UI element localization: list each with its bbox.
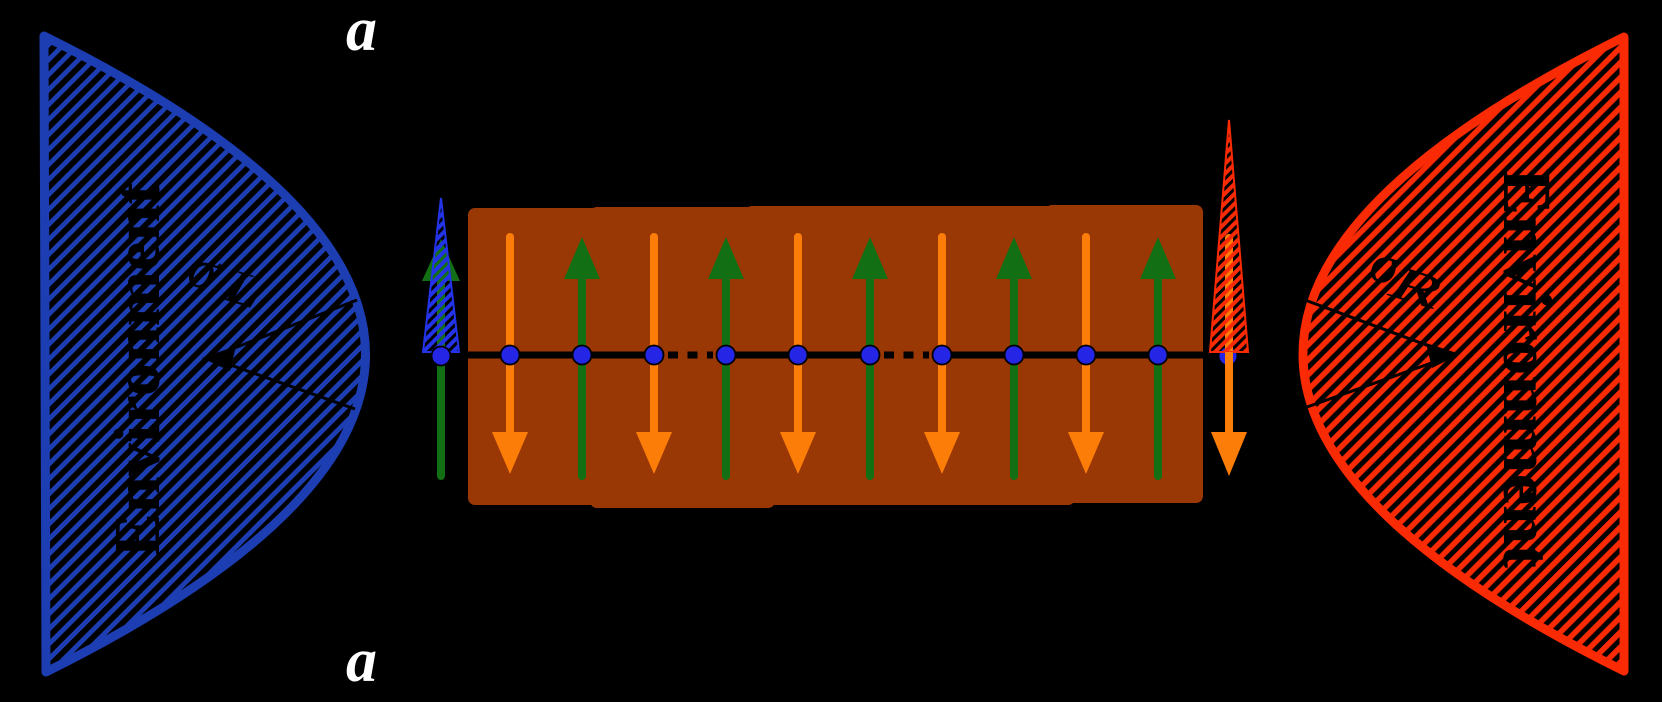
svg-text:a: a [346, 627, 377, 695]
chain line dashed segment 2 [884, 352, 929, 359]
orange down arrow site4 [636, 237, 672, 474]
left injection spike (blue hatched) [423, 198, 459, 352]
orange down arrow site6 [780, 237, 816, 474]
chain site dots [501, 346, 1168, 365]
sigma_R annotation upper line [1305, 300, 1448, 353]
green up arrow site9 [996, 237, 1032, 476]
left boundary site dot [432, 347, 451, 366]
right boundary site dot [1219, 347, 1238, 366]
green up arrow site7 [852, 237, 888, 476]
orange down arrow site10 [1068, 237, 1104, 474]
svg-text:a: a [346, 0, 377, 64]
sigma_L annotation lower line [208, 357, 355, 409]
right boundary orange stem overlay [1225, 352, 1233, 434]
svg-text:Environment: Environment [101, 182, 174, 557]
orange down arrow site2 [492, 237, 528, 474]
chain line solid segment 2 [722, 352, 874, 359]
green up arrow site11 [1140, 237, 1176, 476]
chain line solid segment 3 [938, 352, 1230, 359]
sigma_L annotation upper line [214, 300, 357, 356]
svg-text:Environment: Environment [1489, 168, 1565, 568]
left boundary green up arrow [422, 239, 460, 476]
orange down arrow site8 [924, 237, 960, 474]
sigma_R arrowhead [1426, 343, 1460, 368]
green up arrow site3 [564, 237, 600, 476]
right extraction spike (red hatched) [1210, 120, 1248, 352]
spin chain box (brown) [468, 208, 620, 505]
chain line dashed segment 1 [668, 352, 713, 359]
right environment (red hatched lead) [1303, 37, 1624, 671]
chain line solid segment 1 [438, 352, 658, 359]
sigma_R annotation lower line [1307, 355, 1454, 407]
left environment (blue hatched lead) [44, 36, 366, 672]
green up arrow site5 [708, 237, 744, 476]
right boundary orange down arrow [1211, 238, 1247, 476]
sigma_L arrowhead [202, 346, 236, 371]
